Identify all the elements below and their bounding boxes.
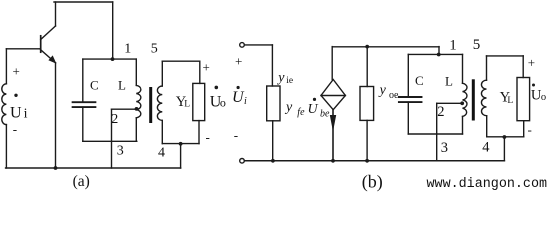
label Uo (a) bbox=[210, 93, 226, 110]
transformer core (b) bbox=[472, 79, 475, 120]
svg-text:2: 2 bbox=[111, 112, 118, 127]
wire diamond riser (b) bbox=[331, 47, 333, 80]
transformer core (a) bbox=[149, 87, 152, 123]
svg-text:i: i bbox=[244, 96, 247, 107]
label node 2 (b) bbox=[437, 104, 444, 120]
svg-text:-: - bbox=[234, 128, 238, 143]
svg-text:-: - bbox=[13, 122, 17, 137]
capacitor C (b) bbox=[399, 54, 422, 134]
svg-text:4: 4 bbox=[482, 139, 490, 155]
label yfe Ube (b) bbox=[284, 98, 330, 120]
wire collector riser bbox=[55, 2, 57, 26]
wire base lead bbox=[6, 48, 40, 50]
wire node3 riser (a) bbox=[111, 109, 113, 168]
label node 1 (b) bbox=[449, 37, 457, 53]
label + output (b) bbox=[528, 55, 535, 70]
label Uo dot (b) bbox=[532, 84, 535, 87]
label node 5 (b) bbox=[473, 37, 481, 53]
svg-text:5: 5 bbox=[151, 42, 158, 57]
svg-text:1: 1 bbox=[449, 37, 457, 53]
label (b) caption bbox=[362, 172, 383, 193]
svg-text:2: 2 bbox=[437, 104, 444, 120]
label node 1 (a) bbox=[124, 42, 131, 57]
junction node 1 (b) bbox=[437, 53, 441, 57]
svg-text:ie: ie bbox=[286, 76, 293, 86]
label Ui (a) bbox=[10, 104, 28, 121]
label (a) caption bbox=[73, 173, 90, 190]
label node 4 (a) bbox=[158, 146, 165, 161]
svg-text:3: 3 bbox=[117, 144, 124, 159]
wire node3 riser (b) bbox=[436, 103, 438, 161]
label - input (b) bbox=[234, 128, 238, 143]
label node 3 (b) bbox=[441, 140, 448, 156]
svg-text:(a): (a) bbox=[73, 173, 90, 190]
label C (a) bbox=[90, 78, 99, 93]
wire output bottom link (a) bbox=[162, 143, 199, 145]
svg-text:o: o bbox=[541, 92, 546, 103]
wire YL riser top (a) bbox=[199, 61, 201, 83]
svg-text:y: y bbox=[276, 70, 285, 85]
load YL box (a) bbox=[193, 83, 205, 120]
wire tank bottom (a) bbox=[83, 140, 137, 142]
label yoe (b) bbox=[378, 83, 399, 101]
capacitor C (a) bbox=[73, 59, 96, 141]
junction tap node 2 (b) bbox=[460, 101, 464, 105]
svg-text:U: U bbox=[308, 102, 319, 117]
svg-text:L: L bbox=[445, 74, 453, 89]
wire yoe riser bottom (b) bbox=[366, 120, 368, 160]
svg-text:C: C bbox=[415, 73, 424, 88]
wire ground end riser (a) bbox=[180, 144, 182, 168]
svg-text:+: + bbox=[13, 64, 20, 79]
admittance yie box (b) bbox=[267, 86, 280, 121]
svg-text:be: be bbox=[320, 108, 330, 119]
svg-text:y: y bbox=[284, 100, 293, 115]
label L (b) bbox=[445, 74, 453, 89]
wire YL riser top (b) bbox=[522, 56, 524, 78]
terminal input top (b) bbox=[240, 43, 245, 48]
svg-text:+: + bbox=[203, 60, 210, 75]
svg-text:oe: oe bbox=[389, 90, 399, 101]
wire yoe riser top (b) bbox=[366, 47, 368, 87]
svg-text:U: U bbox=[10, 104, 22, 121]
wire tap (a) bbox=[112, 108, 137, 110]
wire tank bottom (b) bbox=[408, 133, 462, 135]
inductor L primary (b) bbox=[463, 54, 467, 134]
svg-text:www.diangon.com: www.diangon.com bbox=[427, 177, 548, 192]
load YL box (b) bbox=[517, 78, 530, 121]
svg-text:o: o bbox=[220, 95, 226, 109]
svg-text:5: 5 bbox=[473, 37, 481, 53]
junction node 4 (a) bbox=[179, 142, 183, 146]
svg-text:4: 4 bbox=[158, 146, 165, 161]
wire ground rail (a) bbox=[6, 167, 181, 169]
junction source-ground (b) bbox=[331, 159, 335, 163]
wire tank top (b) bbox=[408, 53, 462, 55]
wire output bottom link (b) bbox=[487, 136, 524, 138]
svg-text:-: - bbox=[528, 122, 532, 137]
wire input top (b) bbox=[244, 44, 272, 46]
label watermark www.diangon.com bbox=[427, 177, 548, 192]
svg-text:-: - bbox=[206, 130, 210, 145]
svg-text:1: 1 bbox=[124, 42, 131, 57]
label YL (b) bbox=[500, 89, 514, 106]
wire rail drop to tank (b) bbox=[438, 47, 440, 55]
wire yie riser top (b) bbox=[271, 45, 273, 86]
label Uo (b) bbox=[531, 87, 546, 103]
svg-text:i: i bbox=[24, 107, 28, 122]
svg-text:3: 3 bbox=[441, 140, 448, 156]
wire secondary top (b) bbox=[487, 55, 524, 57]
dependent source arrow (b) bbox=[330, 110, 335, 161]
junction emitter-ground (a) bbox=[54, 166, 58, 170]
svg-text:L: L bbox=[118, 78, 126, 93]
svg-text:L: L bbox=[507, 96, 513, 106]
wire input left bottom (a) bbox=[5, 125, 7, 168]
wire top rail (a) bbox=[54, 1, 113, 3]
wire ground rail (b) bbox=[244, 160, 504, 162]
wire secondary top (a) bbox=[162, 60, 200, 62]
svg-text:L: L bbox=[184, 100, 190, 110]
junction node 4 (b) bbox=[503, 135, 507, 139]
wire top rail (b) bbox=[332, 46, 439, 48]
label C (b) bbox=[415, 73, 424, 88]
label YL (a) bbox=[176, 94, 190, 110]
wire YL riser bottom (a) bbox=[198, 121, 200, 144]
junction node 1 (a) bbox=[111, 57, 115, 61]
label L (a) bbox=[118, 78, 126, 93]
svg-text:C: C bbox=[90, 78, 99, 93]
transistor Q1 bbox=[41, 26, 56, 63]
junction yie-ground (b) bbox=[271, 159, 275, 163]
label + input (a) bbox=[13, 64, 20, 79]
wire node1 riser (a) bbox=[112, 2, 114, 59]
svg-text:(b): (b) bbox=[362, 172, 383, 193]
terminal input bottom (b) bbox=[240, 159, 245, 164]
inductor secondary (a) bbox=[157, 61, 162, 143]
label + output (a) bbox=[203, 60, 210, 75]
dependent source yfeUbe diamond (b) bbox=[321, 80, 345, 110]
wire ground end riser (b) bbox=[503, 137, 505, 161]
label + input (b) bbox=[235, 54, 242, 69]
inductor input coil (a) bbox=[2, 84, 7, 125]
junction yoe-ground (b) bbox=[365, 159, 369, 163]
label node 2 (a) bbox=[111, 112, 118, 127]
label Ui (b) bbox=[232, 89, 247, 107]
label - input (a) bbox=[13, 122, 17, 137]
label Uo dot (a) bbox=[215, 86, 219, 90]
svg-text:+: + bbox=[235, 54, 242, 69]
wire tank top (a) bbox=[83, 58, 137, 60]
label Ui dot (a) bbox=[14, 94, 17, 97]
label node 3 (a) bbox=[117, 144, 124, 159]
inductor secondary (b) bbox=[481, 56, 486, 137]
label yie (b) bbox=[276, 70, 293, 86]
wire yie riser bottom (b) bbox=[272, 121, 274, 161]
label node 4 (b) bbox=[482, 139, 490, 155]
wire emitter riser bbox=[55, 63, 57, 168]
junction yoe top (b) bbox=[365, 45, 369, 49]
wire YL riser bottom (b) bbox=[523, 121, 525, 137]
svg-text:fe: fe bbox=[297, 107, 305, 118]
wire tap (b) bbox=[437, 102, 463, 104]
admittance yoe box (b) bbox=[360, 87, 374, 121]
junction tap node 2 (a) bbox=[135, 107, 139, 111]
label - output (b) bbox=[528, 122, 532, 137]
wire input left top (a) bbox=[5, 49, 7, 84]
svg-text:y: y bbox=[378, 83, 387, 98]
label - output (a) bbox=[206, 130, 210, 145]
svg-text:+: + bbox=[528, 55, 535, 70]
inductor L primary (a) bbox=[136, 59, 141, 141]
label node 5 (a) bbox=[151, 42, 158, 57]
label Ui dot (b) bbox=[237, 86, 240, 89]
